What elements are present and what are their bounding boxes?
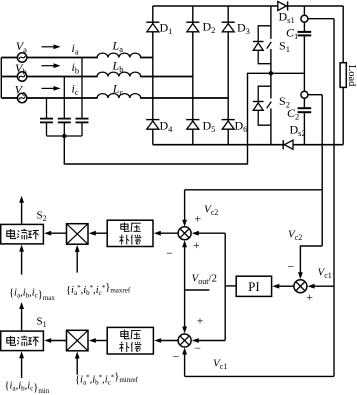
svg-text:+: + bbox=[197, 314, 204, 328]
svg-text:−: − bbox=[173, 350, 180, 364]
svg-text:−: − bbox=[288, 260, 295, 274]
svg-text:Load: Load bbox=[346, 65, 357, 87]
svg-text:+: + bbox=[193, 238, 200, 252]
svg-text:+: + bbox=[306, 290, 313, 304]
svg-text:PI: PI bbox=[248, 279, 260, 294]
svg-text:−: − bbox=[194, 341, 201, 355]
svg-text:+: + bbox=[194, 211, 201, 225]
svg-text:−: − bbox=[166, 246, 173, 260]
